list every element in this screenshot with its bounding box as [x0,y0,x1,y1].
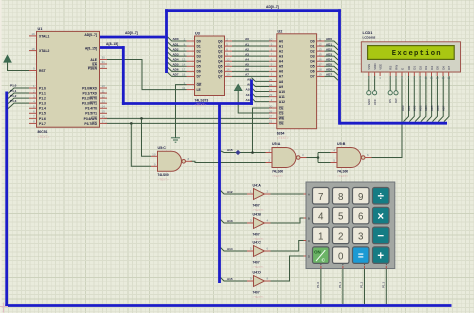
svg-text:AD0: AD0 [326,37,332,41]
svg-text:16: 16 [102,115,106,119]
svg-text:D4: D4 [197,60,201,64]
svg-text:<TEXT>: <TEXT> [253,208,264,212]
svg-text:8: 8 [338,192,344,203]
svg-text:AD5: AD5 [173,63,179,67]
svg-text:AD2: AD2 [413,105,417,111]
wire AD0 U2 D0 to bus [325,41,339,45]
wire A2 U3 Q2 to U2 A2 [232,50,269,52]
svg-text:A3: A3 [245,52,249,56]
svg-text:AD4: AD4 [326,57,332,61]
U3 pin D0 [187,40,195,42]
power VCC arrow for U2 CS [235,84,242,90]
svg-text:U4:A: U4:A [253,184,262,188]
svg-text:13: 13 [182,58,186,62]
svg-text:26: 26 [269,109,273,113]
junction WR [140,117,143,120]
svg-text:A2: A2 [245,47,249,51]
wire AD5 U2 D5 to bus [325,66,339,70]
svg-text:P1.5: P1.5 [39,112,46,116]
U3 pin D5 [187,65,195,67]
U2 pin A9 [269,86,277,88]
svg-text:+: + [377,251,384,263]
svg-text:Exception: Exception [392,50,442,58]
wire AD4 U2 D4 to bus [325,61,339,65]
wire A1 U3 Q1 to U2 A1 [232,45,269,47]
svg-text:D0: D0 [197,39,201,43]
U5:B input stubs [331,152,338,154]
svg-text:15: 15 [102,110,106,114]
svg-text:P1.3: P1.3 [39,102,46,106]
keypad column pin mark [385,266,387,269]
U2 pin WE [269,117,277,119]
svg-text:AD6: AD6 [436,105,440,111]
wire A0 U3 Q0 to U2 A0 [232,40,269,42]
svg-text:7407: 7407 [253,261,260,265]
wire A12 bus to U4 buffer [221,191,248,195]
svg-text:3: 3 [358,232,364,243]
U3 pin D3 [187,55,195,57]
wire A7 U3 Q7 to U2 A7 [232,75,269,77]
terminal circle RS [388,91,392,95]
U1 pin ALE [100,59,108,61]
svg-text:Q2: Q2 [218,49,223,53]
svg-text:D0: D0 [310,39,314,43]
U3 pin D1 [187,45,195,47]
svg-text:17: 17 [182,68,186,72]
svg-text:21: 21 [269,88,273,92]
svg-text:A11: A11 [279,95,285,99]
svg-text:7407: 7407 [253,204,260,208]
wire AD0 bus to U3 D0 [168,37,187,41]
svg-text:D1: D1 [413,66,417,70]
svg-text:EA: EA [92,62,97,66]
U1 pin P1.0 [29,87,37,89]
svg-text:P1.2: P1.2 [360,281,364,288]
svg-text:D2: D2 [310,49,314,53]
svg-text:ALE: ALE [90,58,97,62]
svg-text:D6: D6 [441,66,445,70]
U3 pin Q7 [225,75,233,77]
wire U5:C output to U5:A pin2 [191,161,266,162]
U2 pin D5 [317,65,325,67]
svg-text:31: 31 [102,60,106,64]
svg-text:LCD1: LCD1 [363,31,373,35]
U2 pin D1 [317,45,325,47]
wire RD down to U5:C pin9 [131,123,151,166]
bus A vertical [122,46,125,105]
U3 pin D7 [187,75,195,77]
svg-text:P1.1: P1.1 [39,91,46,95]
svg-text:A6: A6 [279,70,283,74]
svg-text:AD7: AD7 [326,73,332,77]
svg-text:AD6: AD6 [173,68,179,72]
bus AD right vertical [338,9,341,124]
keypad column pin mark [320,266,322,269]
U1 pin P1.3 [29,102,37,104]
wire U4:D out to keypad row D [267,256,307,281]
U5:C input stubs [151,155,158,157]
wire AD1 LCD D1 to bus [409,76,414,122]
wire ALE to U3 LE [105,60,187,90]
svg-text:▾: ▾ [364,263,365,266]
U3 pin Q0 [225,40,233,42]
svg-text:XTAL1: XTAL1 [39,34,49,38]
wire AD5 LCD D5 to bus [432,76,437,122]
svg-text:7: 7 [318,192,323,203]
U1 pin PSEN [100,67,108,69]
svg-text:A15: A15 [227,277,233,281]
bus AD top horizontal [165,9,341,12]
wire P3.7/RD to U2 OE [105,122,270,124]
svg-text:P1.3: P1.3 [10,99,17,103]
U1 pin P3.6/WR [100,117,108,119]
svg-text:A: A [308,192,310,196]
keypad key 4 [313,207,330,224]
svg-text:D6: D6 [197,70,201,74]
wire U4:A out to keypad row A [267,193,307,195]
U1 pin EA [100,63,108,65]
svg-text:AD3: AD3 [173,52,179,56]
svg-text:A6: A6 [245,68,249,72]
U1 pin P3.3/INT1 [100,102,108,104]
U1 pin P1.4 [29,107,37,109]
svg-text:WE: WE [279,117,285,121]
svg-text:16: 16 [226,68,230,72]
bus P1 bottom horizontal [5,304,451,307]
bus AD[0..7] from U1 [100,36,165,39]
nand gate U5:A 74LS00 [272,148,296,168]
U2 pin A3 [269,55,277,57]
svg-text:11: 11 [318,37,321,41]
keypad key = [353,247,370,264]
keypad key &#247; [373,188,390,205]
keypad column pin mark [342,266,344,269]
svg-text:=: = [358,251,364,262]
U2 pin A6 [269,70,277,72]
U1 pin P1.7 [29,122,37,124]
svg-text:15: 15 [318,52,322,56]
svg-text:▾: ▾ [320,263,321,266]
U2 pin OE [269,122,277,124]
svg-text:A2: A2 [279,49,283,53]
svg-text:D: D [308,254,310,258]
wire AD2 bus to U3 D2 [168,47,187,51]
svg-text:14: 14 [102,104,106,108]
U2 pin A5 [269,65,277,67]
wire VCC to U2 CS [238,91,269,113]
svg-text:18: 18 [182,73,186,77]
svg-text:2: 2 [338,232,343,243]
svg-text:OE: OE [279,122,285,126]
wire P3.6/WR to U2 WE [105,117,270,119]
wire AD7 LCD D7 to bus [444,76,449,122]
bus A horizontal [122,102,253,105]
svg-text:A[8..15]: A[8..15] [106,42,118,46]
svg-text:U4:C: U4:C [253,241,262,245]
U1 pin XTAL2 [29,50,37,52]
svg-text:P1.1: P1.1 [338,281,342,288]
wire A12 bus to U2 A12 [252,98,270,102]
U2 pin D6 [317,70,325,72]
svg-text:A12: A12 [227,190,233,194]
U2 pin A2 [269,50,277,52]
svg-text:A4: A4 [245,57,249,61]
svg-text:<TEXT>: <TEXT> [38,135,50,139]
svg-text:Q4: Q4 [218,60,223,64]
wire U2 CE to A15 node [253,108,270,153]
svg-text:29: 29 [102,65,106,69]
svg-text:27: 27 [269,115,273,119]
wire A10 bus to U2 A10 [252,88,270,92]
svg-text:P1.2: P1.2 [10,94,17,98]
wire A3 U3 Q3 to U2 A3 [232,55,269,57]
svg-text:P1.7: P1.7 [39,122,46,126]
svg-text:RS: RS [388,99,392,103]
wire AD1 U2 D1 to bus [325,46,339,50]
wire VCC arrow to RST [8,63,30,71]
svg-text:AD[0..7]: AD[0..7] [84,33,97,37]
wire AD2 LCD D2 to bus [415,76,420,122]
svg-text:D3: D3 [197,54,201,58]
svg-text:B: B [308,216,310,220]
svg-text:23: 23 [269,93,273,97]
svg-text:D5: D5 [197,65,201,69]
keypad key + [373,247,390,264]
svg-text:AD6: AD6 [326,68,332,72]
svg-text:P1.0: P1.0 [39,86,46,90]
svg-text:AD1: AD1 [173,42,179,46]
keypad key &#8722; [373,227,390,244]
U1 pin P3.2/INT0 [100,97,108,99]
svg-text:<TEXT>: <TEXT> [253,295,264,299]
svg-text:P1.3: P1.3 [382,281,386,288]
U2 pin D3 [317,55,325,57]
svg-text:U4:B: U4:B [253,213,262,217]
svg-text:RW: RW [394,65,398,70]
svg-text:Q3: Q3 [218,54,223,58]
wire AD3 LCD D3 to bus [421,76,426,122]
U3 pin Q3 [225,55,233,57]
svg-text:6: 6 [358,212,364,223]
svg-text:18: 18 [31,47,35,51]
U1 pin P3.5/T1 [100,112,108,114]
keypad column pin mark [364,266,366,269]
wire keypad column 2 to bus [342,269,344,305]
svg-text:74LS00: 74LS00 [158,173,169,177]
nand gate U5:B 74LS00 [337,148,361,168]
svg-text:12: 12 [226,58,230,62]
svg-text:1: 1 [318,232,323,243]
svg-text:19: 19 [31,32,35,36]
svg-text:<TEXT>: <TEXT> [272,174,283,178]
svg-text:16: 16 [318,58,322,62]
U1 pin P3.1/TXD [100,92,108,94]
U2 pin A11 [269,96,277,98]
U1 pin P1.2 [29,97,37,99]
wire AD4 LCD D4 to bus [427,76,432,122]
U3 pin D4 [187,60,195,62]
svg-text:<TEXT>: <TEXT> [277,136,289,140]
svg-text:U5:C: U5:C [158,146,167,150]
svg-text:P3.4/T0: P3.4/T0 [85,107,97,111]
buffer U4:A 7407 [254,189,265,200]
svg-text:D7: D7 [447,66,451,70]
svg-text:A0: A0 [245,37,249,41]
wire keypad column 4 to bus [385,269,387,305]
bus A riser to U2 [250,80,253,105]
svg-text:VCC: VCC [373,99,377,105]
keypad key &#215; [373,207,390,224]
keypad key 9 [353,188,370,205]
svg-text:P3.2/INT0: P3.2/INT0 [82,97,97,101]
svg-text:13: 13 [102,99,106,103]
svg-text:AD[0..7]: AD[0..7] [266,5,279,9]
keypad key 8 [333,188,350,205]
keypad key 1 [313,227,330,244]
svg-text:24: 24 [269,83,273,87]
U3 pin Q2 [225,50,233,52]
wire AD6 bus to U3 D6 [168,67,187,71]
wire A14 bus to U4 buffer [221,248,248,252]
svg-text:AD1: AD1 [407,105,411,111]
svg-text:11: 11 [102,89,105,93]
svg-text:U5:A: U5:A [272,142,281,146]
terminal circle VCC [373,91,377,95]
keypad key 3 [353,227,370,244]
keypad panel [306,182,395,269]
wire A15 from bus to U5:A pin1 [221,151,266,153]
U3 pin Q5 [225,65,233,67]
svg-text:P3.1/TXD: P3.1/TXD [83,91,98,95]
svg-text:A15: A15 [227,148,233,152]
svg-text:A4: A4 [279,60,283,64]
U2 pin A10 [269,91,277,93]
svg-text:AD5: AD5 [430,105,434,111]
svg-text:<TEXT>: <TEXT> [337,174,348,178]
svg-text:Q1: Q1 [218,44,223,48]
svg-text:U2: U2 [278,29,283,33]
svg-text:A5: A5 [245,63,249,67]
bus P1 left vertical [5,92,8,307]
svg-text:<TEXT>: <TEXT> [195,103,207,107]
latch U3 74LS373 [195,36,225,96]
bus entry diamond A15 [235,150,240,155]
svg-text:D1: D1 [197,44,201,48]
LCD VSS VDD wires to ground terminals [368,76,370,91]
svg-text:CS: CS [279,111,284,115]
buffer U4:C 7407 [254,246,265,257]
svg-text:−: − [377,231,384,243]
svg-text:P1.1: P1.1 [10,89,17,93]
svg-text:A9: A9 [279,85,283,89]
terminal circle GND [367,91,371,95]
svg-text:▾: ▾ [342,263,343,266]
wire A5 U3 Q5 to U2 A5 [232,65,269,67]
wire A8 bus to U2 A8 [252,78,270,82]
svg-text:GND: GND [367,99,371,105]
svg-text:D5: D5 [310,65,314,69]
svg-text:D2: D2 [418,66,422,70]
svg-text:D0: D0 [407,66,411,70]
svg-text:AD2: AD2 [326,47,332,51]
svg-text:A0: A0 [279,39,283,43]
U1 pin P3.0/RXD [100,87,108,89]
wire keypad column 1 to bus [320,269,322,305]
keypad key 5 [333,207,350,224]
U1 pin XTAL1 [29,35,37,37]
svg-text:A14: A14 [227,247,233,251]
svg-text:D1: D1 [310,44,314,48]
svg-text:AD3: AD3 [418,105,422,111]
U3 pin Q1 [225,45,233,47]
U2 pin CE [269,107,277,109]
junction A15/CE [251,151,254,154]
svg-text:17: 17 [102,120,106,124]
U2 pin A8 [269,80,277,82]
wire A4 U3 Q4 to U2 A4 [232,60,269,62]
svg-text:17: 17 [318,63,322,67]
wire U5:B out to LCD E [371,76,403,158]
svg-text:VSS: VSS [367,64,371,70]
svg-text:A3: A3 [279,54,283,58]
U2 pin A7 [269,75,277,77]
U1 pin P3.4/T0 [100,107,108,109]
svg-text:18: 18 [318,68,322,72]
svg-text:XTAL2: XTAL2 [39,49,49,53]
U3 pin Q6 [225,70,233,72]
svg-text:U5:B: U5:B [337,142,346,146]
svg-text:AD0: AD0 [401,105,405,111]
svg-text:P3.0/RXD: P3.0/RXD [82,86,97,90]
wire AD0 LCD D0 to bus [404,76,409,122]
svg-text:C: C [308,239,310,243]
svg-text:A8: A8 [279,80,283,84]
bus vertical AD riser [165,9,168,73]
junction RD [130,122,133,125]
wire A9 bus to U2 A9 [252,83,270,87]
keypad key 2 [333,227,350,244]
svg-text:11: 11 [182,86,185,90]
svg-text:74LS00: 74LS00 [272,169,283,173]
sheet corner mark [0,303,8,313]
svg-text:PSEN: PSEN [88,67,98,71]
wire AD6 U2 D6 to bus [325,71,339,75]
wire AD3 bus to U3 D3 [168,52,187,56]
svg-text:A5: A5 [279,65,283,69]
svg-text:P3.7/RD: P3.7/RD [84,122,97,126]
svg-text:19: 19 [226,73,230,77]
svg-text:ON: ON [314,250,321,255]
svg-text:A1: A1 [279,44,283,48]
svg-text:12: 12 [318,42,322,46]
svg-text:OE: OE [197,83,203,87]
keypad key 6 [353,207,370,224]
svg-text:74LS00: 74LS00 [337,169,348,173]
wire AD7 U2 D7 to bus [325,76,339,80]
U2 pin A12 [269,101,277,103]
wire U3 OE to ground [176,85,187,138]
svg-text:AD7: AD7 [442,105,446,111]
U1 pin RST [29,70,37,72]
LCD RS RW wires to terminals [389,76,391,91]
wire A6 U3 Q6 to U2 A6 [232,70,269,72]
svg-text:P1.2: P1.2 [39,97,46,101]
svg-text:10: 10 [269,37,273,41]
svg-text:CE: CE [279,106,284,110]
svg-text:LCD1602: LCD1602 [363,35,376,39]
wire A13 bus to U4 buffer [221,220,248,224]
junction U5:A out [317,156,320,159]
